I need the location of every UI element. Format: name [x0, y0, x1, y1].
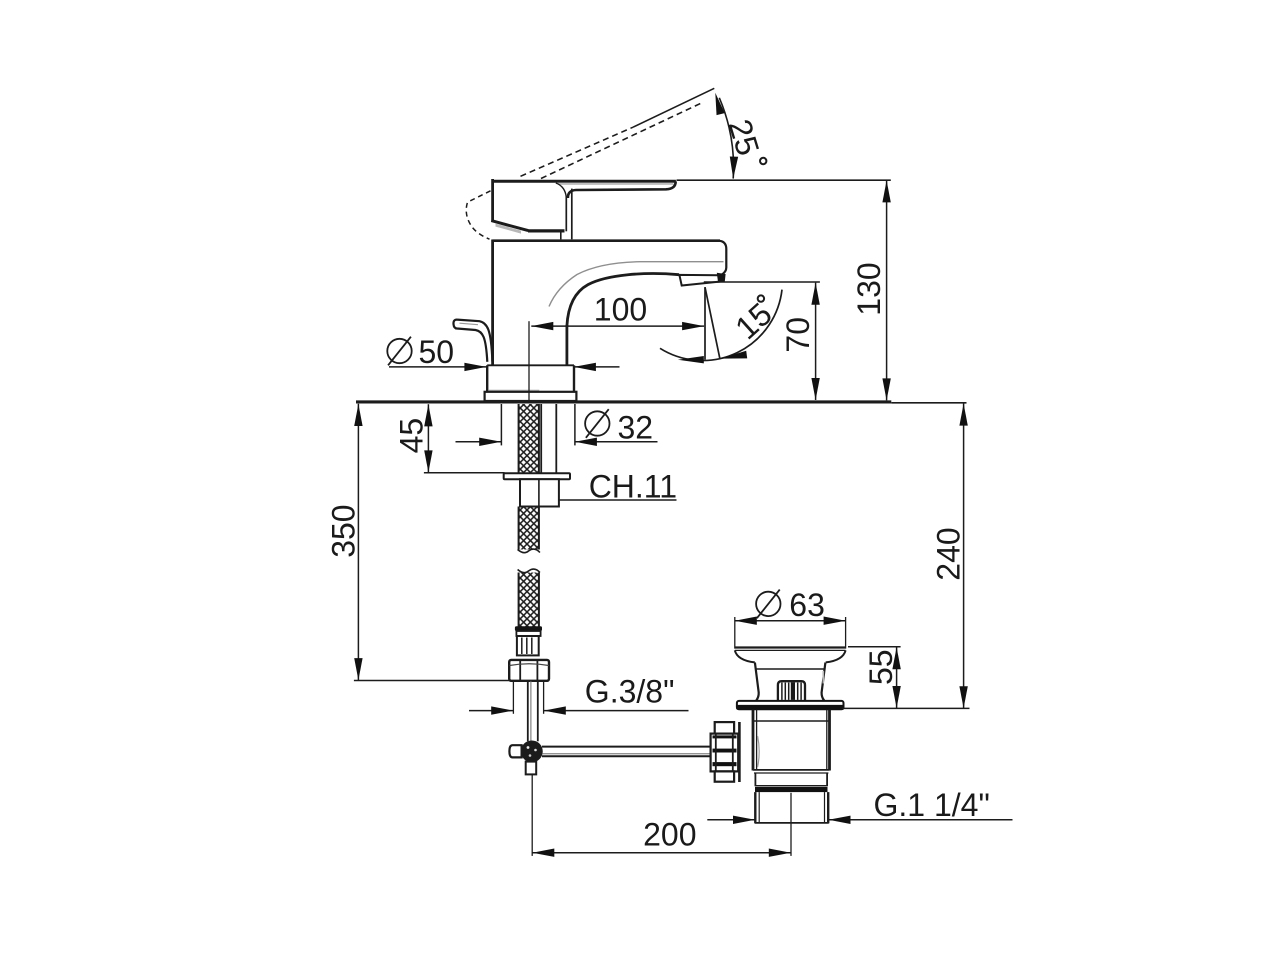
svg-text:32: 32	[618, 410, 654, 446]
svg-text:55: 55	[863, 649, 899, 685]
svg-text:50: 50	[419, 334, 455, 370]
svg-text:350: 350	[325, 504, 361, 557]
svg-text:70: 70	[780, 317, 816, 353]
svg-text:130: 130	[851, 262, 887, 315]
svg-text:240: 240	[931, 527, 967, 580]
svg-text:G.3/8": G.3/8"	[585, 674, 675, 710]
svg-text:CH.11: CH.11	[589, 469, 677, 505]
svg-text:100: 100	[594, 291, 647, 327]
svg-text:45: 45	[394, 418, 430, 454]
svg-text:200: 200	[643, 817, 696, 853]
svg-text:G.1 1/4": G.1 1/4"	[874, 787, 990, 823]
svg-text:63: 63	[789, 587, 825, 623]
